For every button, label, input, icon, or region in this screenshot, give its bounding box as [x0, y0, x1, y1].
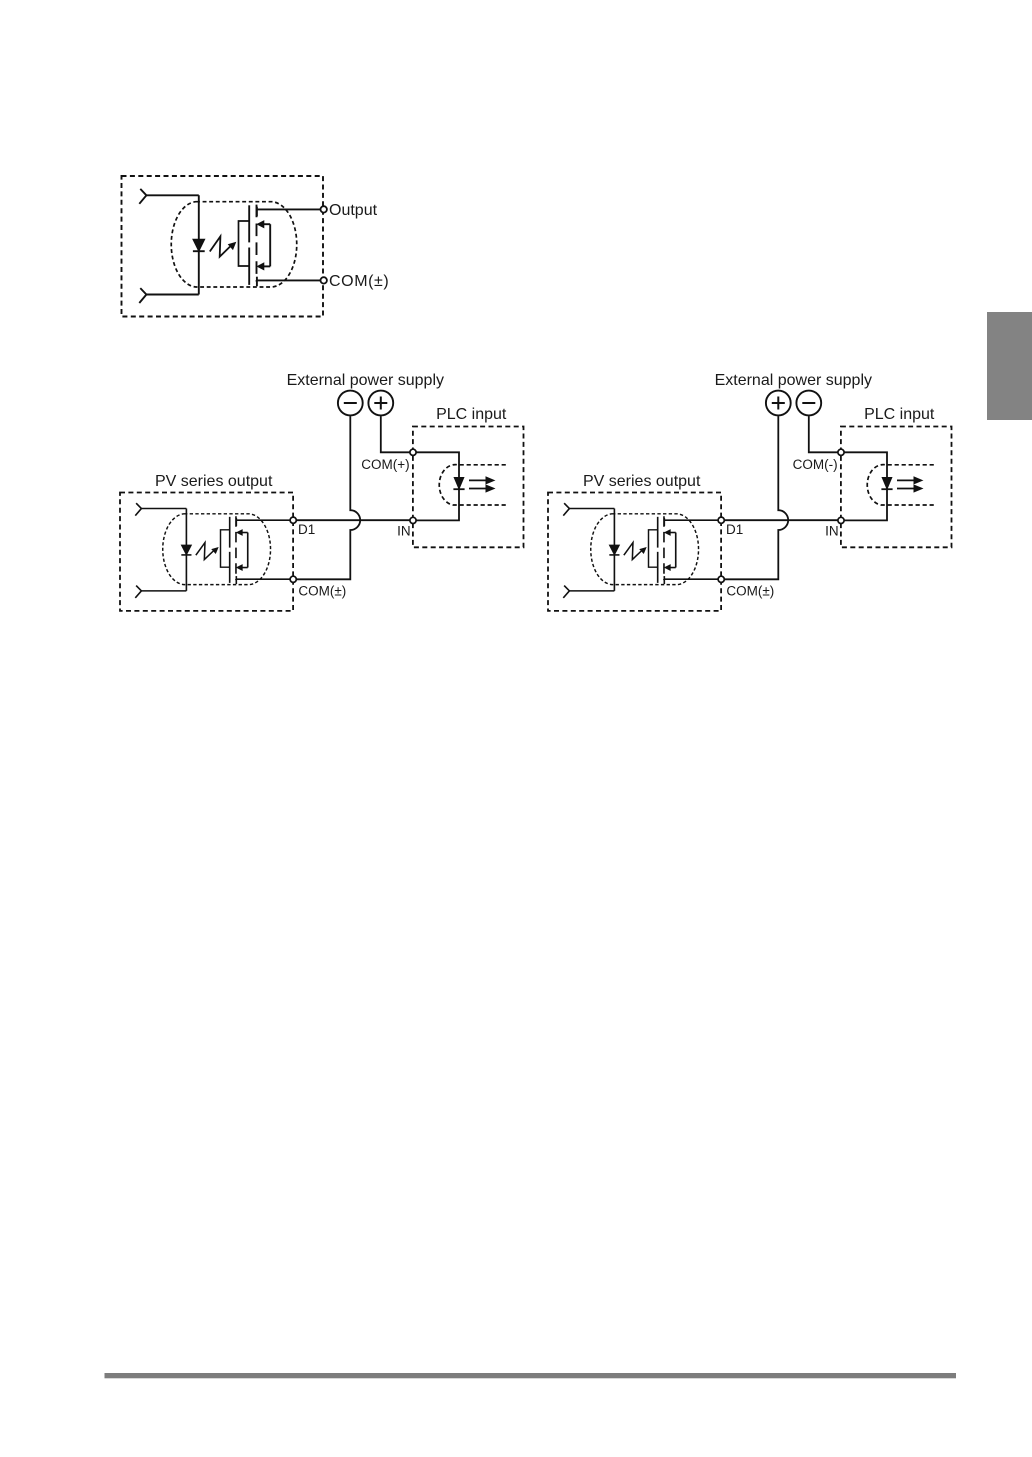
svg-text:PLC input: PLC input: [436, 406, 507, 423]
svg-text:IN: IN: [825, 523, 839, 538]
terminal IN (left): [410, 517, 416, 523]
wire: D1 to IN: [296, 519, 410, 521]
svg-text:Output: Output: [329, 202, 378, 219]
svg-text:D1: D1: [726, 522, 743, 537]
supply terminal circle plus (right): [766, 391, 791, 416]
svg-text:PLC input: PLC input: [864, 406, 935, 423]
terminal: COM(±): [321, 277, 327, 283]
supply terminal circle minus (right): [796, 391, 821, 416]
svg-text:COM(±): COM(±): [726, 584, 774, 599]
svg-text:COM(-): COM(-): [793, 457, 838, 472]
svg-text:PV series output: PV series output: [583, 473, 701, 490]
plus sign: [374, 397, 387, 410]
minus sign: [344, 402, 357, 404]
dashed enclosure box (output circuit): [122, 176, 324, 317]
photoMOS output cell U1: [139, 189, 323, 303]
footer rule (gray): [105, 1373, 957, 1378]
svg-text:External power supply: External power supply: [287, 372, 444, 389]
terminal COM(±) left circuit: [290, 576, 296, 582]
svg-text:D1: D1: [298, 522, 315, 537]
svg-text:COM(+): COM(+): [361, 457, 409, 472]
terminal: Output: [321, 206, 327, 212]
terminal COM(±) right circuit: [718, 576, 724, 582]
PLC input photocoupler U5: [844, 452, 934, 520]
dashed enclosure box PV series output (right): [548, 493, 721, 611]
photoMOS output cell U2: [135, 503, 293, 598]
supply terminal circle minus: [338, 391, 363, 416]
wire: minus to COM(-): [809, 416, 838, 452]
minus sign (right): [802, 402, 815, 404]
svg-text:COM(±): COM(±): [298, 584, 346, 599]
plus sign (right): [772, 397, 785, 410]
terminal COM(-): [838, 449, 844, 455]
svg-text:External power supply: External power supply: [715, 372, 872, 389]
terminal D1 (right): [718, 517, 724, 523]
wire: plus to COM(+): [381, 416, 410, 452]
dashed enclosure box PLC input (left): [413, 427, 524, 548]
terminal IN (right): [838, 517, 844, 523]
photoMOS output cell U4: [563, 503, 721, 598]
svg-text:IN: IN: [397, 523, 411, 538]
wire: plus to COM(±) with hop over D1 wire (right): [724, 416, 788, 579]
svg-text:COM(±): COM(±): [329, 273, 389, 290]
dashed enclosure box PLC input (right): [841, 427, 952, 548]
wire: minus to COM(±) with hop over D1 wire: [296, 416, 360, 579]
wire: D1 to IN (right): [724, 519, 838, 521]
dashed enclosure box PV series output (left): [120, 493, 293, 611]
page edge tab (gray): [987, 312, 1032, 420]
terminal D1: [290, 517, 296, 523]
PLC input photocoupler U3: [416, 452, 506, 520]
terminal COM(+): [410, 449, 416, 455]
svg-text:PV series output: PV series output: [155, 473, 273, 490]
supply terminal circle plus: [368, 391, 393, 416]
